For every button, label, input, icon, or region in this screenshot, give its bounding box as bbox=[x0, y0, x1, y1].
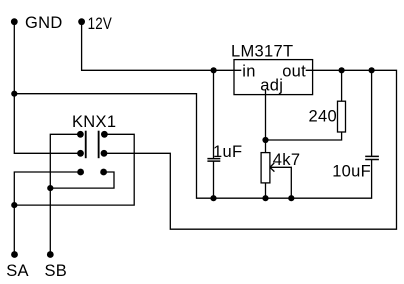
wire relay row1 right to SA crosslink bbox=[14, 134, 134, 205]
junction SB line row3 link bbox=[47, 185, 53, 191]
junction wiper to rail bbox=[288, 195, 294, 201]
junction SA line crosslink bbox=[11, 202, 17, 208]
wire 4k7 wiper to ground rail bbox=[270, 167, 291, 198]
wire 12V drop and rail to LM317 in bbox=[82, 22, 242, 71]
svg-text:1uF: 1uF bbox=[213, 143, 242, 161]
svg-text:4k7: 4k7 bbox=[273, 151, 301, 169]
svg-text:240: 240 bbox=[309, 107, 337, 125]
wire relay row3 left to SA drop bbox=[14, 172, 80, 255]
svg-text:KNX1: KNX1 bbox=[72, 113, 116, 131]
wire relay row1 left to SB drop bbox=[50, 134, 80, 254]
junction 4k7 bottom to rail bbox=[262, 195, 268, 201]
junction out rail to 10uF bbox=[369, 67, 375, 73]
wire 240 bottom lead to adj node bbox=[266, 132, 342, 140]
wire LM317 out rail, right loop, relay row2 right bbox=[104, 70, 397, 229]
relay contact dot row2 right bbox=[101, 150, 108, 157]
relay contact dot row3 left bbox=[77, 169, 84, 176]
relay contact dot row3 right bbox=[100, 169, 107, 176]
capacitor C2 10uF plates bbox=[365, 156, 379, 159]
regulator U1 LM317T box bbox=[234, 60, 313, 95]
potentiometer 4k7 body bbox=[261, 153, 270, 183]
relay KNX1 right bar bbox=[98, 131, 100, 159]
resistor 240 body bbox=[338, 101, 346, 132]
svg-text:GND: GND bbox=[25, 14, 63, 32]
wire 1uF top lead bbox=[213, 70, 215, 158]
wire 10uF top lead bbox=[371, 70, 373, 156]
junction adj to 240 link bbox=[262, 137, 268, 143]
junction 1uF bottom to rail bbox=[210, 195, 216, 201]
wire relay row3 right to SB link bbox=[50, 172, 114, 188]
terminal 12V bbox=[78, 18, 85, 25]
relay contact dot row1 right bbox=[101, 131, 108, 138]
potentiometer 4k7 wiper arrowhead bbox=[270, 163, 275, 172]
relay contact dot row1 left bbox=[77, 131, 84, 138]
wire LM317 adj lead bbox=[265, 90, 267, 153]
wire 1uF bottom lead bbox=[213, 161, 215, 198]
junction out rail to 240 bbox=[339, 67, 345, 73]
junction GND branch bbox=[11, 91, 17, 97]
svg-text:in: in bbox=[242, 62, 255, 80]
terminal SB bbox=[47, 251, 54, 258]
svg-text:12V: 12V bbox=[88, 15, 113, 33]
wire 4k7 bottom lead bbox=[265, 183, 267, 198]
svg-text:LM317T: LM317T bbox=[231, 43, 293, 61]
junction 12V rail to 1uF bbox=[211, 67, 217, 73]
terminal GND bbox=[11, 18, 18, 25]
svg-text:10uF: 10uF bbox=[332, 162, 371, 180]
svg-text:SA: SA bbox=[6, 262, 29, 280]
svg-text:SB: SB bbox=[45, 262, 68, 280]
terminal SA bbox=[11, 251, 18, 258]
relay KNX1 left bar bbox=[85, 131, 87, 159]
relay contact dot row2 left bbox=[77, 150, 84, 157]
wire GND vertical to relay row2 left bbox=[14, 22, 80, 154]
wire GND branch to ground rail and 10uF bottom bbox=[14, 94, 371, 199]
capacitor C1 1uF plates bbox=[207, 159, 220, 162]
svg-text:out: out bbox=[282, 62, 306, 80]
svg-text:adj: adj bbox=[260, 77, 283, 95]
wire 240 top lead bbox=[341, 70, 343, 101]
